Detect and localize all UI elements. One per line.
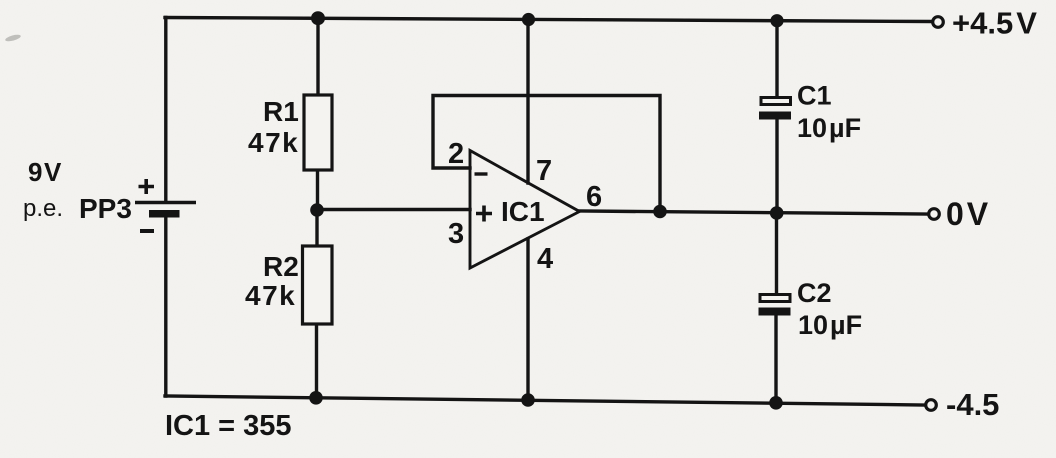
op-amp U1 triangle xyxy=(470,151,580,269)
wire: feedback loop output to inverting input (pin 2) xyxy=(433,96,660,212)
capacitor C1 positive plate xyxy=(761,98,791,105)
wire: C2 top lead xyxy=(775,213,778,295)
node: bottom rail / R2 xyxy=(309,391,323,405)
svg-text:PP3: PP3 xyxy=(79,193,132,224)
svg-text:R2: R2 xyxy=(263,251,299,282)
resistor R2 body xyxy=(303,246,333,324)
battery negative plate xyxy=(149,210,180,218)
wire: top +9V rail xyxy=(165,18,930,22)
capacitor C2 positive plate xyxy=(760,295,790,302)
wire: R2 bottom lead xyxy=(315,324,318,398)
svg-text:10µF: 10µF xyxy=(798,310,862,340)
capacitor C1 negative plate xyxy=(759,112,791,120)
wire: op-amp output to 0V terminal xyxy=(579,211,927,214)
node: output / feedback junction xyxy=(653,205,667,219)
svg-text:+4.5V: +4.5V xyxy=(952,6,1037,41)
node: 0V rail / C1-C2 junction xyxy=(770,206,784,220)
wire: C2 bottom lead xyxy=(774,316,777,403)
wire: R2 top lead xyxy=(315,210,318,246)
op-amp inverting input minus sign xyxy=(475,172,488,175)
wire: C1 bottom lead xyxy=(775,119,778,213)
svg-text:C1: C1 xyxy=(797,81,832,111)
svg-text:R1: R1 xyxy=(263,96,299,127)
svg-text:47k: 47k xyxy=(245,280,296,311)
node: bottom rail / C2 xyxy=(769,396,783,410)
svg-text:C2: C2 xyxy=(797,278,832,308)
node: bottom rail / pin 4 supply xyxy=(521,393,535,407)
wire: C1 top lead xyxy=(775,21,778,98)
resistor R1 body xyxy=(304,95,332,170)
wire: bottom -4.5 rail xyxy=(165,396,924,405)
svg-text:47k: 47k xyxy=(248,127,299,158)
svg-text:4: 4 xyxy=(537,243,553,275)
svg-text:10µF: 10µF xyxy=(797,113,861,143)
wire: op-amp supply pin 4 lead xyxy=(526,239,529,400)
wire: R1 bottom lead xyxy=(316,170,319,210)
svg-text:IC1: IC1 xyxy=(501,196,545,227)
svg-text:9V: 9V xyxy=(28,157,63,187)
svg-text:-4.5: -4.5 xyxy=(946,387,999,422)
battery positive plate xyxy=(135,201,196,204)
svg-text:IC1 = 355: IC1 = 355 xyxy=(165,410,292,442)
wire: R1 top lead xyxy=(316,18,319,95)
wire: op-amp supply pin 7 lead xyxy=(526,20,529,184)
svg-text:p.e.: p.e. xyxy=(23,195,63,222)
wire: left vertical battery branch (top) xyxy=(164,18,167,203)
wire: node to op-amp noninverting input (pin 3) xyxy=(317,208,470,211)
node: top rail / C1 xyxy=(770,14,783,27)
svg-text:6: 6 xyxy=(586,181,602,213)
node: top rail / R1 xyxy=(311,11,325,25)
wire: left vertical battery branch (bottom) xyxy=(164,214,167,396)
capacitor C2 negative plate xyxy=(759,308,791,316)
battery plus sign xyxy=(139,179,155,194)
battery minus sign xyxy=(140,229,154,233)
svg-text:3: 3 xyxy=(448,218,464,250)
svg-text:0V: 0V xyxy=(946,196,989,232)
node: top rail / pin 7 supply xyxy=(522,13,535,26)
smudge artifact top-left xyxy=(5,33,22,42)
terminal +4.5V open circle xyxy=(933,17,944,28)
op-amp noninverting input plus sign xyxy=(476,206,492,222)
node: R1-R2 divider midpoint xyxy=(310,203,324,217)
terminal 0V open circle xyxy=(929,209,940,220)
svg-text:7: 7 xyxy=(536,155,552,187)
svg-text:2: 2 xyxy=(448,138,464,170)
terminal -4.5 open circle xyxy=(926,400,937,411)
battery B1 9V PP3 xyxy=(135,179,196,231)
